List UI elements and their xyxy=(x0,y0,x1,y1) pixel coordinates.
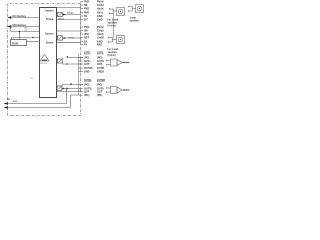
svg-text:OUT2L: OUT2L xyxy=(84,87,93,90)
svg-text:(AVd): (AVd) xyxy=(97,33,104,36)
svg-text:GVdd: GVdd xyxy=(58,19,64,21)
svg-text:OUT-: OUT- xyxy=(97,90,103,93)
svg-text:GVdd: GVdd xyxy=(97,4,104,7)
svg-text:(8 ohm): (8 ohm) xyxy=(108,55,116,57)
svg-text:(PG): (PG) xyxy=(97,83,102,86)
svg-text:OUT-: OUT- xyxy=(84,63,90,66)
svg-text:PVdd: PVdd xyxy=(97,26,104,29)
svg-text:Sense-: Sense- xyxy=(46,41,54,44)
svg-text:RVD: RVD xyxy=(84,11,89,14)
svg-text:(PG): (PG) xyxy=(84,83,89,86)
svg-text:OUT-: OUT- xyxy=(84,90,90,93)
svg-text:(PG): (PG) xyxy=(84,56,89,59)
svg-text:OUTA: OUTA xyxy=(97,60,104,63)
svg-text:GND: GND xyxy=(84,70,90,73)
svg-text:(PG): (PG) xyxy=(97,94,102,97)
svg-text:Sense+: Sense+ xyxy=(45,32,54,35)
svg-text:DV: DV xyxy=(84,18,88,21)
svg-text:OUTA: OUTA xyxy=(97,87,104,90)
svg-text:AVss: AVss xyxy=(97,11,104,14)
svg-text:GVdd: GVdd xyxy=(97,29,104,32)
svg-text:PVdd: PVdd xyxy=(97,0,104,3)
svg-text:PVD: PVD xyxy=(84,0,89,3)
svg-text:AVdd: AVdd xyxy=(97,7,104,10)
svg-text:GND: GND xyxy=(97,15,103,18)
svg-text:OUT-: OUT- xyxy=(97,63,103,66)
svg-text:SN-: SN- xyxy=(84,29,88,32)
svg-text:(PV): (PV) xyxy=(84,33,89,36)
svg-text:GND2: GND2 xyxy=(97,70,105,73)
svg-text:(PG): (PG) xyxy=(84,94,89,97)
svg-text:GvDD: GvDD xyxy=(97,36,104,39)
svg-text:GND: GND xyxy=(97,40,103,43)
svg-text:PVdd: PVdd xyxy=(69,38,75,40)
svg-text:FA: FA xyxy=(84,43,87,46)
svg-text:SA: SA xyxy=(84,40,88,43)
svg-text:Pkg: Pkg xyxy=(30,78,33,80)
svg-text:OUT+: OUT+ xyxy=(84,60,91,63)
svg-text:PVdd: PVdd xyxy=(67,12,73,14)
svg-text:PVD: PVD xyxy=(84,26,89,29)
svg-text:Sense-: Sense- xyxy=(46,18,54,21)
svg-text:(PG): (PG) xyxy=(97,56,102,59)
svg-text:GND: GND xyxy=(97,18,103,21)
svg-text:SD: SD xyxy=(84,4,88,7)
svg-text:Sense+: Sense+ xyxy=(45,9,54,12)
svg-text:PVD: PVD xyxy=(84,7,89,10)
svg-text:OUT2B: OUT2B xyxy=(84,67,93,70)
svg-text:RST: RST xyxy=(84,36,89,39)
svg-text:PAD: PAD xyxy=(97,43,102,46)
svg-text:OUTB: OUTB xyxy=(97,67,104,70)
svg-text:SV: SV xyxy=(84,15,88,18)
